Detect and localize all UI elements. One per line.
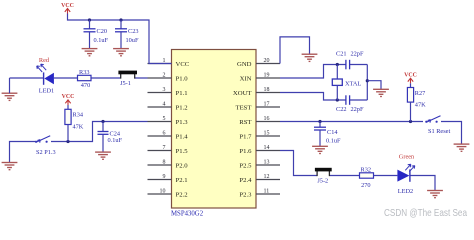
pin 9 (P2.1) stub (148, 179, 172, 181)
capacitor C23 (115, 20, 127, 48)
jumper J5-1 (118, 71, 137, 79)
svg-text:P2.3: P2.3 (239, 191, 252, 198)
svg-text:0.1uF: 0.1uF (94, 37, 109, 44)
svg-text:10uF: 10uF (126, 37, 139, 44)
svg-text:13: 13 (264, 159, 270, 165)
LED LED2 (green) (397, 164, 414, 182)
svg-text:17: 17 (264, 101, 270, 107)
pin 3 (P1.1) stub (148, 92, 172, 94)
capacitor C22 (346, 95, 350, 105)
svg-text:J5-2: J5-2 (317, 178, 328, 185)
pin 1 (VCC) stub (148, 63, 172, 65)
wire xtal gnd wire (367, 81, 381, 89)
svg-text:C21: C21 (336, 51, 347, 58)
wire XOUT net (280, 93, 367, 101)
ground C23 gnd (113, 49, 129, 56)
svg-text:2: 2 (163, 72, 166, 78)
ground S2 gnd (2, 163, 18, 170)
capacitor C20 (84, 20, 96, 48)
pin 6 (P1.4) stub (148, 135, 172, 137)
svg-text:P1.5: P1.5 (176, 148, 189, 155)
wire XIN net (280, 65, 367, 79)
svg-text:P2.1: P2.1 (176, 177, 188, 184)
junction xtal gnd tap (366, 79, 369, 82)
svg-text:9: 9 (163, 174, 166, 180)
wire LED1-gnd stub (9, 78, 11, 93)
ground C24 gnd (95, 152, 111, 159)
ground IC gnd (302, 54, 318, 61)
pin 17 (TEST) stub (256, 106, 280, 108)
ground xtal gnd (373, 89, 389, 96)
svg-text:R27: R27 (415, 90, 426, 97)
svg-text:XIN: XIN (240, 75, 252, 82)
junction C24 tap (101, 120, 104, 123)
svg-text:P1.2: P1.2 (176, 104, 188, 111)
wire GND net (280, 37, 310, 64)
wire P1.3 net (10, 122, 148, 163)
pin 18 (XOUT) stub (256, 92, 280, 94)
svg-text:Red: Red (39, 57, 50, 64)
svg-text:Green: Green (399, 154, 415, 161)
pin 4 (P1.2) stub (148, 106, 172, 108)
svg-text:47K: 47K (73, 124, 84, 131)
svg-text:R34: R34 (73, 112, 84, 119)
crystal Y1 XTAL (332, 65, 342, 101)
svg-text:22pF: 22pF (351, 51, 364, 58)
svg-text:XTAL: XTAL (345, 80, 361, 87)
pin 7 (P1.5) stub (148, 150, 172, 152)
ground S1 gnd (454, 144, 470, 151)
pin 12 (P2.4) stub (256, 179, 280, 181)
ground LED1 gnd (2, 93, 18, 100)
svg-text:C22: C22 (336, 106, 347, 113)
svg-text:CSDN @The East Sea: CSDN @The East Sea (384, 208, 467, 219)
svg-text:TEST: TEST (236, 104, 252, 111)
ground C14 gnd (312, 146, 328, 153)
jumper J5-2 (315, 168, 332, 176)
capacitor C24 (98, 122, 109, 152)
pin 5 (P1.3) stub (148, 121, 172, 123)
junction C14 tap (318, 120, 321, 123)
resistor R34 (67, 105, 69, 109)
svg-text:LED1: LED1 (39, 87, 54, 94)
resistor R33 (78, 75, 92, 80)
junction xtal top (336, 63, 339, 66)
svg-text:19: 19 (264, 72, 270, 78)
svg-text:0.1uF: 0.1uF (108, 137, 123, 144)
svg-text:C23: C23 (128, 28, 139, 35)
svg-text:14: 14 (264, 145, 270, 151)
svg-text:J5-1: J5-1 (120, 80, 131, 87)
IC U1 MSP430G2 body (172, 50, 257, 209)
svg-text:0.1uF: 0.1uF (326, 137, 341, 144)
svg-text:16: 16 (264, 116, 270, 122)
wire R34 to net (67, 125, 69, 142)
svg-text:8: 8 (163, 159, 166, 165)
svg-text:C14: C14 (327, 129, 338, 136)
svg-text:18: 18 (264, 87, 270, 93)
svg-text:270: 270 (361, 182, 370, 189)
svg-text:7: 7 (163, 145, 166, 151)
svg-text:10: 10 (160, 188, 166, 194)
svg-text:6: 6 (163, 130, 166, 136)
svg-text:11: 11 (264, 188, 270, 194)
svg-text:470: 470 (81, 82, 90, 89)
pin 15 (P1.7) stub (256, 135, 280, 137)
LED LED1 (red) (37, 64, 54, 85)
svg-text:P1.1: P1.1 (176, 90, 188, 97)
svg-text:20: 20 (264, 58, 270, 64)
svg-text:P1.7: P1.7 (239, 133, 252, 140)
svg-text:S2 P1.3: S2 P1.3 (36, 149, 56, 156)
pin 13 (P2.5) stub (256, 164, 280, 166)
svg-text:GND: GND (237, 61, 252, 68)
svg-text:15: 15 (264, 130, 270, 136)
resistor R32 (360, 173, 374, 178)
svg-text:C20: C20 (97, 28, 108, 35)
svg-text:P2.2: P2.2 (176, 191, 188, 198)
junction xtal bottom (336, 98, 339, 101)
wire RST net (280, 122, 462, 144)
svg-text:P2.4: P2.4 (239, 177, 252, 184)
ground LED2 gnd (427, 191, 443, 198)
pin 16 (RST) stub (256, 121, 280, 123)
pin 19 (XIN) stub (256, 77, 280, 79)
svg-text:XOUT: XOUT (233, 90, 252, 97)
svg-text:RST: RST (239, 119, 251, 126)
wire LED1 net (10, 77, 148, 79)
svg-text:LED2: LED2 (398, 188, 413, 195)
switch S1 (425, 116, 440, 123)
svg-text:P2.5: P2.5 (239, 162, 252, 169)
wire P1.6 net (280, 151, 435, 191)
power VCC R34 supply (62, 94, 75, 105)
wire xtal right side (366, 65, 368, 101)
pin 8 (P2.0) stub (148, 164, 172, 166)
svg-text:P2.0: P2.0 (176, 162, 189, 169)
svg-text:22pF: 22pF (351, 106, 364, 113)
wire R27 to RST (410, 102, 412, 121)
resistor R27 (410, 83, 412, 87)
pin 10 (P2.2) stub (148, 193, 172, 195)
pin 14 (P1.6) stub (256, 150, 280, 152)
junction rail-C23 (119, 18, 122, 21)
junction R34 tap (66, 140, 69, 143)
svg-text:P1.6: P1.6 (239, 148, 252, 155)
svg-text:4: 4 (163, 101, 166, 107)
capacitor C21 (346, 60, 350, 70)
svg-text:MSP430G2: MSP430G2 (171, 211, 204, 218)
ground C20 gnd (82, 49, 98, 56)
svg-text:5: 5 (163, 116, 166, 122)
svg-text:R32: R32 (361, 167, 372, 174)
svg-text:12: 12 (264, 174, 270, 180)
svg-text:P1.0: P1.0 (176, 75, 189, 82)
svg-text:3: 3 (163, 87, 166, 93)
pin 11 (P2.3) stub (256, 193, 280, 195)
svg-text:P1.3: P1.3 (176, 119, 189, 126)
power VCC top-left (61, 3, 74, 14)
junction R27 tap (409, 120, 412, 123)
switch S2 (35, 136, 50, 143)
junction rail-C20 (88, 18, 91, 21)
power VCC R27 supply (404, 73, 417, 84)
pin 20 (GND) stub (256, 63, 280, 65)
capacitor C14 (314, 122, 326, 147)
svg-text:S1 Reset: S1 Reset (428, 128, 450, 135)
pin 2 (P1.0) stub (148, 77, 172, 79)
wire VCC rail (68, 14, 172, 64)
svg-text:47K: 47K (415, 102, 426, 109)
svg-text:R33: R33 (79, 69, 90, 76)
svg-text:P1.4: P1.4 (176, 133, 189, 140)
svg-text:VCC: VCC (176, 61, 190, 68)
